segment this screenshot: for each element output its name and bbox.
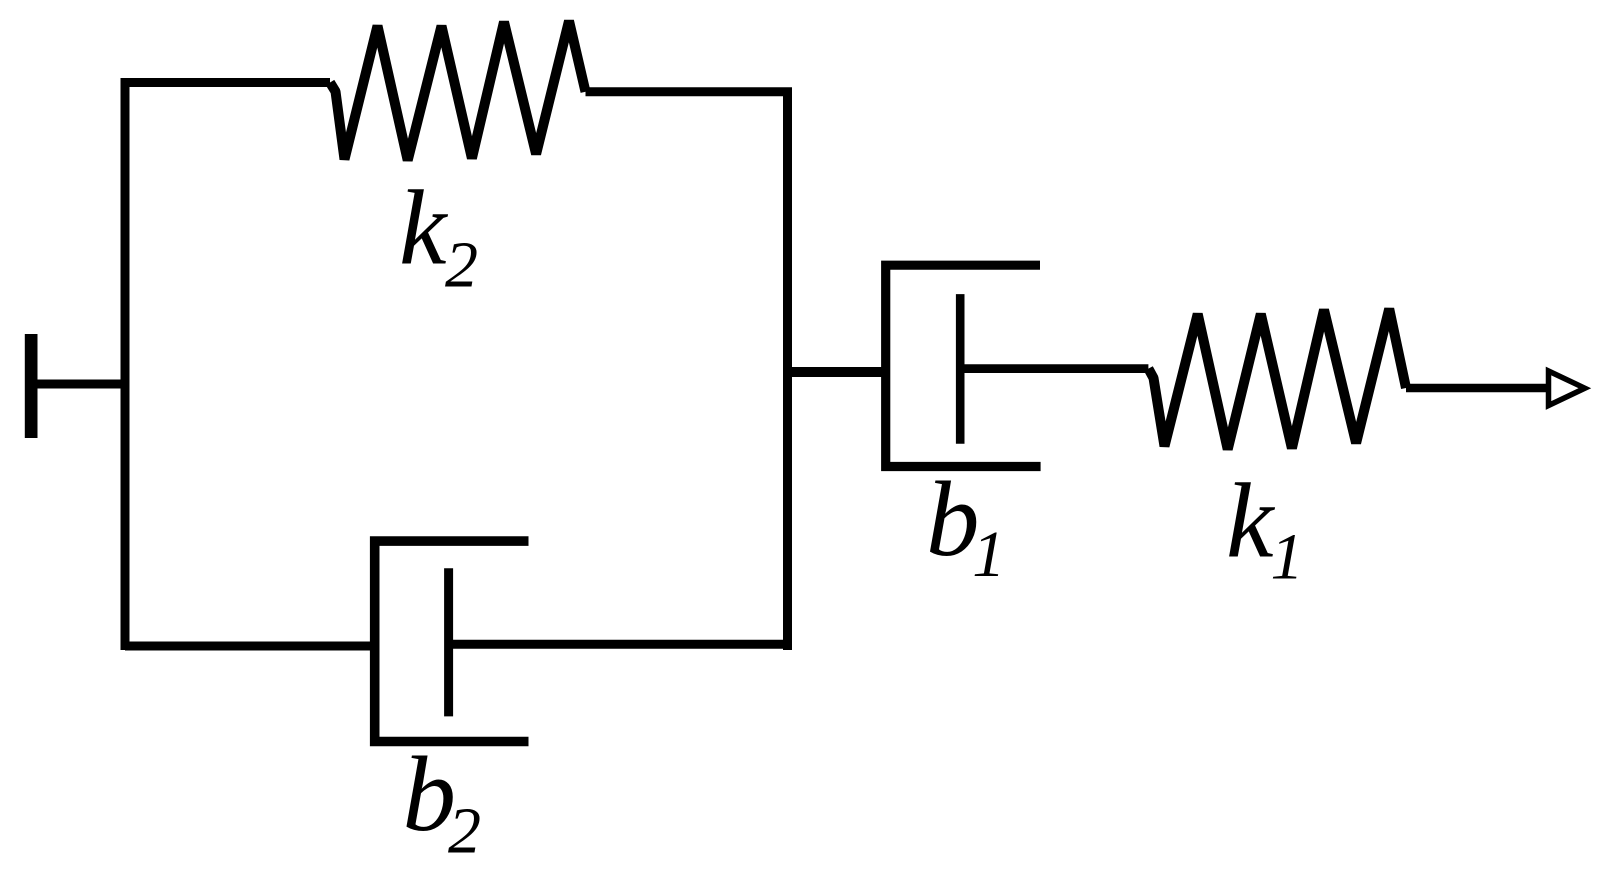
svg-text:k: k — [1226, 463, 1276, 581]
svg-text:k: k — [399, 170, 449, 288]
svg-text:2: 2 — [445, 229, 478, 302]
svg-text:2: 2 — [448, 795, 481, 868]
svg-text:1: 1 — [972, 518, 1005, 591]
svg-text:1: 1 — [1271, 521, 1304, 594]
